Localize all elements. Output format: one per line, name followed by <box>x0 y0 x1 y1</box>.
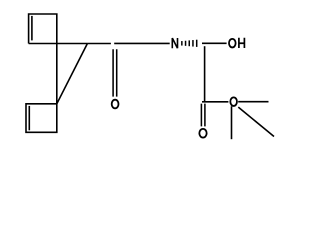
ester C=O double bond lines <box>201 104 205 127</box>
wire: bond vertex A to carbonyl carbon <box>87 43 111 45</box>
node O (ester oxygen label) <box>230 97 237 106</box>
wire: bond stereocenter to OH <box>202 42 227 44</box>
wire: tert-butyl methyl bond diagonal <box>238 107 274 136</box>
wire: cyclopropane hypotenuse <box>57 44 88 104</box>
node O (ketone oxygen label) <box>112 100 119 109</box>
wire: bond stereocenter down to ester carbon <box>204 46 206 102</box>
wire: tert-butyl methyl bond right <box>238 101 268 103</box>
node N (amide nitrogen label) <box>172 38 177 48</box>
wire: long horizontal bond through spiro carbon to vertex A <box>29 43 88 45</box>
double bond inner line bottom ring <box>28 106 30 130</box>
wire: bond carbonyl carbon to N <box>114 42 170 44</box>
wire: cyclopropane left vertical side <box>56 44 58 104</box>
node OH (hydroxyl label) <box>229 38 244 48</box>
cyclobutene ring bottom (square) <box>26 104 57 133</box>
cyclobutene ring top (square) <box>29 14 57 44</box>
node O (ester carbonyl oxygen label) <box>199 129 206 138</box>
hashed wedge bond N to stereocenter <box>182 40 197 47</box>
double bond inner line top ring <box>31 16 33 41</box>
wire: tert-butyl methyl bond down <box>231 106 233 139</box>
carbonyl C=O double bond lines <box>113 49 117 96</box>
wire: bond ester carbon to ester oxygen <box>202 101 228 103</box>
